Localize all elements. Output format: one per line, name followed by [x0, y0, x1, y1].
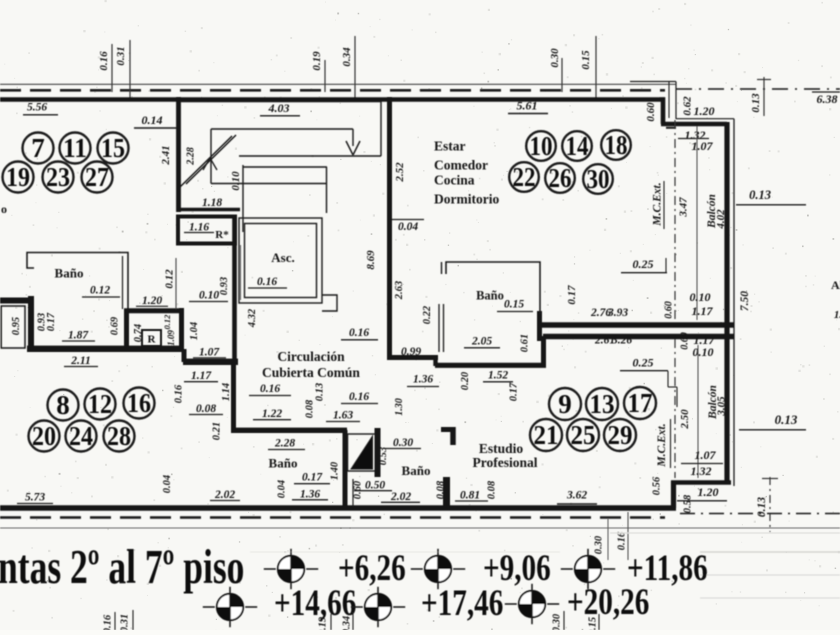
svg-text:0.81: 0.81 [460, 490, 480, 502]
svg-text:1.20: 1.20 [142, 295, 162, 307]
svg-text:1.04: 1.04 [189, 322, 200, 340]
svg-text:0.74: 0.74 [133, 324, 144, 342]
svg-text:2.63: 2.63 [394, 281, 405, 300]
svg-text:4.32: 4.32 [247, 308, 258, 328]
svg-text:0.50: 0.50 [365, 480, 385, 492]
svg-text:0.13: 0.13 [315, 383, 326, 401]
svg-text:0.16: 0.16 [260, 383, 280, 395]
svg-text:Asc.: Asc. [271, 250, 294, 265]
svg-text:Al: Al [831, 278, 840, 292]
svg-text:1.: 1. [834, 309, 840, 321]
svg-text:0.34: 0.34 [341, 47, 353, 67]
svg-text:0.58: 0.58 [683, 494, 694, 513]
svg-text:14: 14 [566, 131, 589, 161]
svg-text:0.16: 0.16 [174, 384, 185, 403]
svg-text:0.13: 0.13 [775, 412, 798, 427]
svg-text:2.02: 2.02 [214, 489, 235, 501]
svg-text:0.10: 0.10 [693, 345, 714, 359]
svg-text:4.02: 4.02 [715, 209, 727, 230]
svg-text:30: 30 [587, 164, 610, 194]
svg-text:0.17: 0.17 [46, 312, 57, 331]
svg-text:+17,46: +17,46 [421, 583, 503, 624]
svg-text:2.11: 2.11 [70, 355, 91, 367]
svg-text:R*: R* [215, 229, 229, 241]
svg-text:26: 26 [549, 163, 572, 193]
svg-text:0.60: 0.60 [664, 301, 675, 319]
svg-text:3.93: 3.93 [607, 307, 628, 319]
svg-text:1.32: 1.32 [691, 464, 712, 478]
svg-text:1.17: 1.17 [692, 304, 714, 318]
svg-text:0.21: 0.21 [212, 422, 223, 440]
svg-text:1.07: 1.07 [695, 448, 717, 462]
svg-text:0.62: 0.62 [681, 96, 693, 116]
svg-text:Comedor: Comedor [434, 158, 488, 173]
svg-text:8: 8 [56, 390, 70, 420]
svg-text:0.04: 0.04 [162, 475, 173, 493]
svg-text:1.20: 1.20 [694, 104, 715, 118]
svg-text:3.05: 3.05 [715, 396, 727, 417]
svg-text:1.07: 1.07 [692, 139, 714, 153]
svg-text:0.12: 0.12 [90, 285, 110, 297]
svg-text:0.13: 0.13 [756, 497, 768, 517]
svg-text:Baño: Baño [55, 266, 84, 281]
svg-text:3.26: 3.26 [611, 335, 632, 347]
svg-text:11: 11 [63, 133, 87, 163]
svg-text:0.25: 0.25 [633, 356, 654, 370]
svg-text:0.20: 0.20 [460, 371, 471, 390]
svg-text:Cubierta Común: Cubierta Común [262, 365, 360, 380]
svg-text:0.60: 0.60 [353, 480, 364, 499]
svg-text:0.13: 0.13 [750, 93, 762, 113]
svg-text:0.99: 0.99 [401, 346, 421, 358]
svg-text:0.12: 0.12 [163, 269, 175, 289]
svg-text:Baño: Baño [402, 463, 431, 478]
svg-text:2.05: 2.05 [471, 336, 492, 348]
svg-text:28: 28 [107, 421, 131, 451]
svg-text:16: 16 [127, 388, 151, 418]
svg-text:0.08: 0.08 [305, 399, 316, 418]
svg-text:0.31: 0.31 [120, 614, 131, 630]
svg-text:1.63: 1.63 [333, 410, 353, 422]
svg-text:0.16: 0.16 [617, 531, 628, 550]
svg-text:Estar: Estar [434, 139, 466, 154]
svg-text:7: 7 [31, 133, 45, 163]
svg-text:0.12: 0.12 [162, 314, 172, 330]
svg-text:M.C.Ext.: M.C.Ext. [652, 182, 664, 226]
svg-text:0.25: 0.25 [633, 257, 654, 271]
svg-text:Dormitorio: Dormitorio [434, 192, 499, 207]
svg-text:27: 27 [85, 162, 109, 192]
svg-text:5.56: 5.56 [27, 102, 47, 114]
svg-text:+20,26: +20,26 [567, 582, 649, 623]
svg-text:18: 18 [605, 130, 628, 160]
svg-text:0.17: 0.17 [302, 472, 323, 484]
svg-text:Profesional: Profesional [473, 455, 538, 470]
svg-text:0.17: 0.17 [509, 382, 520, 401]
svg-text:0.60: 0.60 [645, 102, 657, 122]
svg-text:0.30: 0.30 [393, 437, 413, 449]
svg-text:29: 29 [608, 420, 633, 450]
svg-text:3.47: 3.47 [677, 197, 689, 218]
svg-text:0.69: 0.69 [110, 316, 121, 335]
svg-text:0.19: 0.19 [311, 51, 323, 71]
svg-text:0.95: 0.95 [11, 317, 22, 335]
svg-text:0.15: 0.15 [580, 50, 592, 70]
svg-text:20: 20 [32, 421, 56, 451]
svg-text:0.16: 0.16 [98, 51, 110, 71]
svg-text:1.09: 1.09 [166, 330, 176, 346]
svg-text:0.10: 0.10 [230, 171, 242, 191]
svg-text:Circulación: Circulación [277, 349, 345, 364]
svg-text:0.34: 0.34 [342, 616, 353, 630]
svg-text:o: o [1, 202, 7, 216]
svg-text:0.16: 0.16 [103, 614, 114, 630]
svg-text:0.04: 0.04 [277, 480, 288, 498]
svg-text:1.87: 1.87 [68, 330, 89, 342]
svg-text:2.28: 2.28 [186, 147, 197, 166]
svg-text:10: 10 [530, 131, 553, 161]
svg-text:0.04: 0.04 [398, 221, 418, 233]
svg-text:7.50: 7.50 [739, 291, 751, 311]
svg-text:1.14: 1.14 [221, 383, 232, 401]
svg-text:0.08: 0.08 [436, 480, 447, 499]
svg-text:2.50: 2.50 [679, 409, 691, 430]
svg-text:0.61: 0.61 [520, 334, 531, 352]
svg-text:M.C.Ext.: M.C.Ext. [656, 423, 668, 467]
svg-text:23: 23 [46, 162, 70, 192]
svg-text:ntas 2º al 7º piso: ntas 2º al 7º piso [0, 541, 244, 595]
svg-text:1.36: 1.36 [300, 489, 320, 501]
svg-text:5.61: 5.61 [517, 99, 538, 113]
svg-text:4.03: 4.03 [268, 101, 290, 115]
svg-text:13: 13 [590, 389, 615, 419]
svg-text:15: 15 [101, 133, 125, 163]
svg-text:0.14: 0.14 [142, 113, 163, 127]
svg-text:0.22: 0.22 [422, 305, 433, 324]
svg-text:25: 25 [571, 420, 596, 450]
svg-text:Cocina: Cocina [434, 173, 475, 188]
svg-text:0.16: 0.16 [257, 276, 277, 288]
svg-text:1.30: 1.30 [394, 398, 405, 416]
svg-text:0.30: 0.30 [594, 535, 605, 554]
svg-text:0.60: 0.60 [680, 332, 691, 350]
svg-text:0.30: 0.30 [552, 613, 563, 630]
svg-text:22: 22 [513, 162, 536, 192]
svg-text:2.52: 2.52 [394, 162, 406, 183]
svg-text:9: 9 [558, 389, 572, 419]
svg-text:0.17: 0.17 [566, 285, 578, 305]
svg-text:19: 19 [6, 162, 30, 192]
svg-text:R: R [148, 334, 157, 346]
svg-text:Estudio: Estudio [479, 441, 524, 456]
svg-text:1.20: 1.20 [698, 485, 719, 499]
svg-text:0.10: 0.10 [199, 290, 219, 302]
svg-text:1.52: 1.52 [488, 370, 508, 382]
svg-text:17: 17 [628, 388, 653, 418]
svg-text:3.62: 3.62 [566, 490, 587, 502]
svg-text:1.17: 1.17 [191, 370, 212, 382]
svg-text:1.40: 1.40 [330, 461, 341, 480]
svg-text:6.38: 6.38 [817, 92, 838, 106]
svg-text:1.22: 1.22 [262, 408, 282, 420]
svg-text:0.16: 0.16 [349, 327, 369, 339]
svg-text:0.16: 0.16 [349, 391, 369, 403]
svg-text:24: 24 [69, 421, 93, 451]
svg-text:12: 12 [88, 389, 112, 419]
svg-text:1.18: 1.18 [202, 197, 222, 209]
svg-text:0.53: 0.53 [378, 447, 389, 465]
svg-text:0.13: 0.13 [749, 188, 771, 202]
svg-text:0.10: 0.10 [690, 290, 711, 304]
svg-text:5.73: 5.73 [25, 492, 45, 504]
svg-text:Baño: Baño [476, 289, 504, 303]
svg-text:1.07: 1.07 [199, 347, 220, 359]
svg-text:Baño: Baño [269, 456, 298, 471]
svg-text:0.08: 0.08 [196, 403, 216, 415]
svg-text:0.56: 0.56 [652, 476, 663, 495]
svg-text:0.30: 0.30 [549, 48, 561, 68]
svg-text:21: 21 [534, 420, 559, 450]
svg-text:8.69: 8.69 [365, 250, 377, 270]
svg-text:1.16: 1.16 [189, 222, 209, 234]
svg-text:2.41: 2.41 [160, 145, 172, 165]
svg-text:0.19: 0.19 [318, 616, 329, 630]
svg-text:2.28: 2.28 [274, 438, 295, 450]
svg-text:0.08: 0.08 [487, 480, 498, 499]
svg-text:0.15: 0.15 [504, 299, 524, 311]
svg-text:1.36: 1.36 [413, 374, 433, 386]
svg-text:2.02: 2.02 [390, 491, 411, 503]
svg-text:0.93: 0.93 [219, 277, 230, 295]
svg-text:0.31: 0.31 [115, 46, 127, 65]
svg-text:0.15: 0.15 [588, 617, 599, 630]
